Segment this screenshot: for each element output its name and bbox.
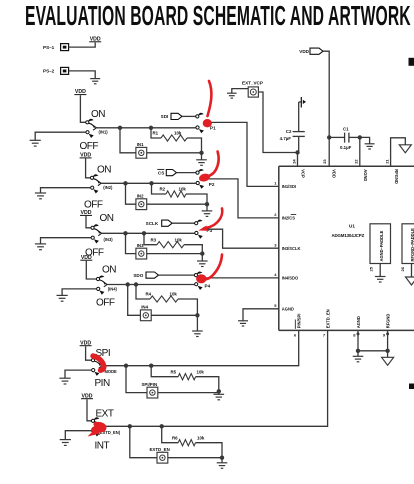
resistor R5 10k [151, 366, 219, 392]
svg-text:INT: INT [95, 440, 110, 451]
svg-text:10k: 10k [174, 131, 182, 136]
net flag VDD [299, 48, 323, 54]
svg-text:R3: R3 [151, 237, 157, 242]
wire P1 to IC pin 1 [207, 122, 279, 186]
net VDD [81, 393, 93, 399]
jumper P4 pin 2 [195, 283, 203, 290]
wire switch common to jumper P1 [97, 127, 196, 129]
svg-text:CS: CS [158, 170, 164, 175]
svg-text:OFF: OFF [80, 141, 99, 152]
svg-text:(IN1): (IN1) [99, 129, 109, 134]
net label MODE [105, 369, 118, 374]
net VDD [80, 153, 92, 159]
svg-text:IN2: IN2 [137, 193, 144, 198]
pin 21 RFGND [384, 159, 398, 184]
ground [30, 140, 41, 146]
svg-text:R1: R1 [153, 131, 159, 136]
node junction R2 branch [149, 181, 153, 185]
switch bottom contact [97, 287, 105, 294]
ground (R3) [197, 261, 208, 267]
label EXT [96, 408, 114, 419]
node junction R6 [160, 424, 164, 428]
testpoint EXTD_EN [150, 447, 170, 463]
ground (EXT_VCP) [227, 93, 237, 98]
wire P4 to IC pin 4 [206, 277, 279, 279]
label OFF [84, 199, 103, 210]
testpoint IN3 [136, 243, 147, 259]
svg-text:R5: R5 [171, 369, 177, 374]
wire bottom contact to ground [65, 431, 91, 440]
node junction ground R3 [200, 251, 204, 261]
resistor R1 10k [151, 128, 202, 153]
node junction pin8 [356, 349, 360, 353]
wire bottom contact to ground [35, 132, 86, 140]
pin 24 VCP [291, 159, 305, 178]
wire CS flag to jumper [177, 172, 196, 174]
svg-text:(IN4): (IN4) [108, 287, 118, 292]
svg-text:SDO: SDO [133, 273, 143, 278]
svg-text:4.7µF: 4.7µF [280, 136, 292, 141]
wire ground to EXT_VCP [232, 89, 248, 94]
label OFF [80, 141, 99, 152]
capacitor C1 0.1uF [340, 126, 352, 149]
net label (EXTD_EN) [99, 430, 121, 435]
node junction R4 branch [134, 282, 138, 286]
switch top contact [91, 224, 99, 229]
ground (paddle 25) [375, 277, 386, 283]
node junction ground R4 [195, 313, 199, 331]
ground [59, 378, 70, 384]
wire P3 to IC pin 3 [207, 229, 279, 248]
wire MODE common to IC pin6 [102, 330, 298, 365]
testpoint SPI/PIN [142, 382, 158, 398]
label SPI [96, 348, 111, 359]
wire testpoint EXTD_EN to ground node [168, 457, 222, 459]
node junction EXTD_EN testpoint [128, 424, 132, 428]
label ADGM1304JCPZ [332, 233, 365, 238]
node junction IN1 testpoint branch [118, 126, 122, 130]
wire bottom contact to ground [62, 289, 97, 296]
svg-text:IN2/CS: IN2/CS [282, 216, 295, 221]
jumper P1 pin 2 [196, 126, 204, 133]
node junction ground R5 [217, 389, 221, 394]
wire VDD to switch top contact [86, 261, 96, 279]
svg-text:EXTD_EN: EXTD_EN [325, 309, 330, 328]
label P4 [205, 284, 211, 289]
ground (R1) [196, 160, 207, 166]
label ON [100, 213, 114, 224]
wire VCP stub to C2 [298, 102, 300, 132]
net flag SCLK [146, 220, 172, 226]
svg-text:C2: C2 [286, 129, 292, 134]
svg-text:EVALUATION BOARD SCHEMATIC AND: EVALUATION BOARD SCHEMATIC AND ARTWORK [25, 0, 411, 31]
svg-text:AGND–PADDLE: AGND–PADDLE [379, 230, 384, 261]
wire testpoint SPI/PIN to ground node [158, 391, 219, 392]
wire VDD flag down to C1 node [323, 51, 329, 137]
switch top contact [91, 417, 99, 422]
wire switch common to jumper P3 [102, 232, 195, 234]
RF ground (pin9) [382, 357, 394, 365]
svg-text:ADGM1304JCPZ: ADGM1304JCPZ [332, 233, 365, 238]
svg-text:22: 22 [354, 159, 359, 164]
jumper P2 pin 1 [196, 169, 204, 174]
pin 3 IN3/SCLK [274, 242, 300, 251]
pin 9 RFGND [383, 314, 391, 338]
label P1 [210, 125, 216, 130]
svg-text:OFF: OFF [96, 298, 115, 309]
node junction ground R2 [205, 202, 209, 211]
net label (IN1) [99, 129, 109, 134]
svg-text:24: 24 [291, 159, 296, 164]
annotation red scribble P3 [198, 209, 222, 231]
svg-text:RFGND: RFGND [385, 314, 390, 329]
wire C1 node to ground [360, 137, 370, 143]
ground [60, 440, 71, 446]
resistor R2 10k [152, 183, 208, 204]
label OFF [96, 298, 115, 309]
wire VDD to switch top contact [80, 95, 86, 122]
switch bottom contact [86, 131, 94, 138]
wire EXT_VCP to VCP node [258, 92, 297, 153]
svg-text:PS–1: PS–1 [43, 45, 55, 50]
node VCP stub symbol [299, 97, 306, 108]
svg-text:U1: U1 [349, 224, 355, 229]
testpoint IN1 [136, 142, 147, 158]
svg-text:10k: 10k [197, 435, 205, 440]
switch bottom contact [92, 369, 100, 376]
net label (IN4) [108, 287, 118, 292]
svg-text:RFGND–PADDLE: RFGND–PADDLE [410, 228, 414, 262]
wire PS-1 to VDD [69, 43, 96, 48]
pin 5 AGND [274, 303, 294, 312]
label ON [97, 165, 111, 176]
wire PS-2 to ground [69, 71, 96, 79]
svg-text:ON: ON [97, 165, 111, 176]
ground (R4) [192, 331, 203, 337]
switch bottom contact [91, 236, 99, 243]
net label (IN2) [103, 185, 113, 190]
ground (R5) [214, 394, 225, 400]
svg-text:P1: P1 [210, 125, 216, 130]
wire pin8 to ground [357, 330, 360, 350]
annotation red scribble P2 [198, 152, 219, 183]
wire VDD to switch top contact [86, 159, 91, 178]
svg-text:AGND: AGND [356, 316, 361, 328]
svg-text:IN3: IN3 [137, 243, 144, 248]
pin 23 VDD [322, 159, 336, 178]
wire SDI flag to jumper [182, 115, 196, 117]
jumper P2 pin 2 [196, 181, 204, 188]
svg-text:OFF: OFF [84, 199, 103, 210]
wire SDO flag to jumper [159, 274, 195, 276]
label OFF [85, 247, 104, 258]
net VDD [80, 210, 92, 216]
annotation red scribble P1 [203, 81, 212, 127]
node junction IN4 testpoint branch [126, 282, 130, 286]
switch bottom contact [91, 186, 99, 193]
node junction R3 branch [142, 231, 146, 235]
svg-text:21: 21 [384, 159, 389, 164]
wire VDD to switch top contact [87, 399, 92, 421]
wire C2 to pin24 node [298, 136, 300, 152]
switch top contact [86, 119, 94, 124]
svg-text:SDI: SDI [161, 114, 169, 119]
paddle pin 26 RFGND-PADDLE [400, 224, 414, 277]
wire VDD to switch top contact [86, 216, 91, 228]
svg-text:C1: C1 [343, 126, 349, 131]
paddle pin 25 AGND-PADDLE [368, 224, 390, 277]
pin 1 IN1/SDI [274, 181, 296, 190]
switch blade and common [94, 229, 102, 236]
svg-text:ON: ON [100, 213, 114, 224]
jumper P3 pin 1 [195, 220, 203, 225]
svg-text:AGND: AGND [363, 169, 368, 181]
net flag CS [157, 169, 176, 175]
jumper P1 pin 1 [196, 113, 204, 118]
label P2 [209, 182, 215, 187]
wire switch common to jumper P4 [107, 284, 194, 286]
node junction IN2 testpoint branch [123, 181, 127, 185]
svg-text:IN4/SDO: IN4/SDO [282, 276, 299, 281]
svg-text:10k: 10k [175, 237, 183, 242]
node junction IN3 testpoint branch [123, 231, 127, 235]
svg-text:VDD: VDD [332, 169, 337, 178]
wire to testpoint IN4 [128, 285, 141, 316]
testpoint IN2 [136, 193, 147, 209]
pin 4 IN4/SDO [274, 272, 299, 281]
svg-text:IN4: IN4 [141, 305, 148, 310]
wire EXTD_EN common to IC pin7 [102, 330, 327, 426]
connector PS-2 [43, 67, 69, 74]
pin 2 IN2/CS [274, 212, 296, 221]
node junction VDD/C1 [327, 135, 331, 166]
label INT [95, 440, 110, 451]
ground (R6) [217, 463, 228, 469]
switch blade and common [100, 280, 108, 287]
wire VDD to switch top contact [86, 346, 92, 360]
svg-text:SPI/PIN: SPI/PIN [142, 382, 158, 387]
svg-text:MODE: MODE [105, 369, 118, 374]
connector PS-1 [43, 44, 69, 51]
switch top contact [90, 174, 98, 179]
annotation red scribble P4 [196, 255, 222, 284]
wire P2 to IC pin 2 [207, 179, 279, 218]
pin 6 PIN/SPI [294, 314, 302, 338]
svg-text:IN1: IN1 [137, 142, 144, 147]
svg-text:ON: ON [91, 109, 105, 120]
wire bottom contact to ground [41, 188, 91, 193]
wire pin5 AGND to ground [243, 309, 279, 321]
svg-text:P2: P2 [209, 182, 215, 187]
wire bottom contact to ground [41, 238, 92, 244]
annotation red scribble EXTD_EN [88, 424, 105, 437]
svg-text:R4: R4 [146, 292, 152, 297]
node junction R5 [149, 364, 153, 368]
svg-text:(IN3): (IN3) [104, 237, 114, 242]
resistor R6 10k [162, 426, 222, 457]
resistor R4 10k [136, 285, 197, 316]
title [25, 0, 411, 31]
pin 22 AGND [354, 159, 368, 182]
wire SCLK flag to jumper [172, 222, 194, 224]
label PIN [95, 378, 110, 389]
wire bottom contact to ground [65, 370, 92, 378]
net VDD [80, 255, 92, 261]
wire C1 to pin22 node [349, 136, 360, 138]
svg-text:EXT_VCP: EXT_VCP [242, 81, 263, 86]
label P3 [207, 228, 213, 233]
wire testpoint IN2 to ground node [147, 203, 207, 205]
op-amp U1 ADGM1304JCPZ (IC body) [279, 166, 414, 330]
svg-text:25: 25 [368, 266, 373, 271]
label ON [91, 109, 105, 120]
switch blade and common [89, 123, 97, 130]
ground [35, 193, 46, 199]
node junction C1/pin22 [358, 135, 362, 166]
svg-text:10k: 10k [197, 369, 205, 374]
connector EXT_VCP [242, 81, 263, 98]
net flag (cropped, top right) [409, 58, 414, 66]
svg-text:EXTD_EN: EXTD_EN [150, 447, 170, 452]
node junction pin9 [385, 349, 389, 353]
net flag SDI [161, 113, 182, 119]
net label (IN3) [104, 237, 114, 242]
svg-text:PIN: PIN [95, 378, 110, 389]
svg-text:VCP: VCP [301, 169, 306, 178]
svg-text:VDD: VDD [299, 49, 309, 54]
net VDD [80, 340, 92, 346]
svg-text:PIN/SPI: PIN/SPI [297, 314, 302, 329]
wire pin21 to RF ground [391, 138, 406, 167]
testpoint IN4 [140, 305, 151, 321]
svg-text:ON: ON [102, 265, 116, 276]
svg-text:EXT: EXT [96, 408, 114, 419]
wire to testpoint IN2 [126, 183, 136, 204]
svg-text:IN1/SDI: IN1/SDI [282, 184, 296, 189]
svg-text:10k: 10k [179, 187, 187, 192]
label U1 [349, 224, 355, 229]
wire switch common to jumper P2 [101, 182, 195, 184]
svg-text:R6: R6 [172, 435, 178, 440]
svg-text:SCLK: SCLK [146, 221, 159, 226]
node junction VCP/pin24 [295, 150, 299, 166]
ground (C1) [365, 144, 375, 149]
wire testpoint IN3 to ground node [147, 253, 203, 255]
svg-text:23: 23 [322, 159, 327, 164]
ground (PS-2) [90, 79, 100, 84]
node junction ground R1 [199, 151, 203, 160]
ground (pin8) [353, 351, 364, 362]
resistor R3 10k [144, 233, 202, 253]
switch bottom contact [92, 429, 100, 436]
jumper P4 pin 1 [194, 271, 202, 276]
wire to testpoint SPI/PIN [126, 366, 147, 393]
ground [35, 244, 46, 250]
node junction SPI/PIN testpoint [124, 364, 128, 368]
wire testpoint IN4 to ground node [151, 314, 197, 316]
net VDD [74, 89, 86, 95]
wire testpoint IN1 to ground node [147, 152, 202, 154]
capacitor C2 4.7uF [280, 129, 305, 141]
svg-text:0.1µF: 0.1µF [340, 145, 352, 150]
wire pin8-pin9 ground link [358, 350, 388, 352]
svg-text:IN3/SCLK: IN3/SCLK [282, 246, 301, 251]
net flag SDO [133, 272, 158, 278]
svg-text:10k: 10k [170, 292, 178, 297]
svg-text:(IN2): (IN2) [103, 185, 113, 190]
RF ground (pin21) [399, 145, 411, 153]
annotation red scribble MODE [93, 356, 104, 370]
switch blade and common [95, 361, 103, 368]
svg-text:P4: P4 [205, 284, 211, 289]
svg-text:AGND: AGND [282, 307, 294, 312]
svg-text:R2: R2 [160, 187, 166, 192]
RF ground (paddle 26) [406, 277, 414, 285]
svg-text:PS–2: PS–2 [43, 69, 55, 74]
ground (R2) [202, 211, 213, 217]
switch blade and common [94, 179, 102, 186]
net VDD (PS-1) [89, 36, 101, 42]
switch blade and common [95, 422, 103, 429]
label ON [102, 265, 116, 276]
switch top contact [96, 275, 104, 280]
switch top contact [91, 357, 99, 362]
pin 8 AGND [353, 316, 361, 337]
pin 7 EXTD_EN [323, 309, 331, 337]
node junction ground R6 [220, 456, 224, 463]
svg-text:26: 26 [400, 266, 405, 271]
wire to testpoint IN1 [120, 128, 136, 153]
wire VDD node to C1 [329, 136, 344, 138]
jumper P3 pin 2 [195, 231, 203, 238]
wire pin9 to RF ground [386, 330, 389, 357]
wire to testpoint IN3 [126, 233, 136, 253]
net flag (cropped, bottom right) [409, 384, 414, 390]
ground [57, 295, 68, 301]
svg-text:RFGND: RFGND [394, 169, 399, 184]
ground (pin5) [238, 321, 248, 326]
node junction R1 branch [149, 126, 153, 130]
wire to testpoint EXTD_EN [130, 426, 157, 457]
